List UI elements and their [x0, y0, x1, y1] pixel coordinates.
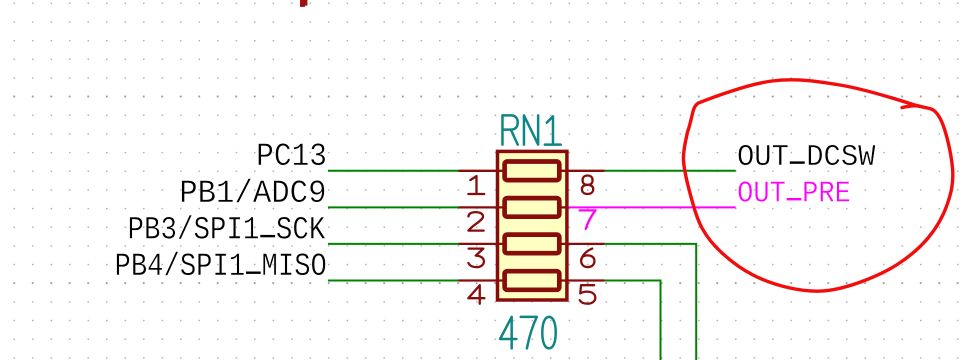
resistor element 4: [505, 271, 560, 290]
wire PB4/SPI1_MISO (left row 4): [328, 280, 459, 282]
resistor element 2: [505, 198, 560, 217]
wire PB1/ADC9 (left row 2): [328, 206, 459, 208]
pin number 4: [468, 285, 484, 304]
pin number 3: [468, 249, 483, 268]
pin 1: [459, 170, 505, 172]
svg-text:OUT DCSW: OUT DCSW: [737, 139, 876, 174]
pin 3: [459, 243, 505, 245]
red annotation pen start tail: [902, 106, 920, 108]
partial symbol fragment at top edge: [300, 0, 307, 7]
resistor element 1: [505, 162, 560, 181]
svg-text:PC13: PC13: [256, 139, 327, 175]
pin number 2: [468, 212, 483, 231]
pin number 6: [581, 249, 594, 268]
pin number 7 (highlighted): [580, 210, 596, 229]
wire from pin 5 with corner down: [605, 281, 661, 360]
red annotation freehand loop: [683, 80, 952, 291]
svg-text:PB3/SPI1 SCK: PB3/SPI1 SCK: [128, 211, 326, 247]
pin 7: [559, 206, 569, 208]
underscore of PB3/SPI1_SCK: [260, 235, 275, 237]
wire from pin 6 with corner down: [605, 244, 696, 360]
value 470: [500, 317, 556, 348]
pin 8: [559, 170, 605, 172]
svg-text:PB1/ADC9: PB1/ADC9: [179, 176, 326, 212]
wire PC13 (left row 1): [328, 170, 459, 172]
underscore of OUT_PRE: [787, 198, 802, 200]
resistor element 3: [505, 235, 560, 254]
pin number 1: [468, 176, 484, 194]
pin 2: [459, 206, 505, 208]
resistor network RN1 body: [498, 151, 567, 300]
pin 5: [559, 279, 605, 281]
wire OUT_PRE highlighted (right row 2): [568, 206, 736, 208]
pin 4: [459, 279, 505, 281]
svg-text:PB4/SPI1 MISO: PB4/SPI1 MISO: [115, 248, 327, 285]
underscore of PB4/SPI1_MISO: [246, 272, 261, 274]
wire PB3/SPI1_SCK (left row 3): [328, 243, 459, 245]
wire OUT_DCSW (right row 1): [605, 170, 736, 172]
reference RN1: [502, 115, 560, 144]
pin number 5: [580, 285, 596, 304]
svg-text:OUT PRE: OUT PRE: [737, 176, 851, 211]
pin 6: [559, 243, 605, 245]
pin number 8: [582, 176, 593, 195]
underscore of OUT_DCSW: [790, 161, 805, 163]
